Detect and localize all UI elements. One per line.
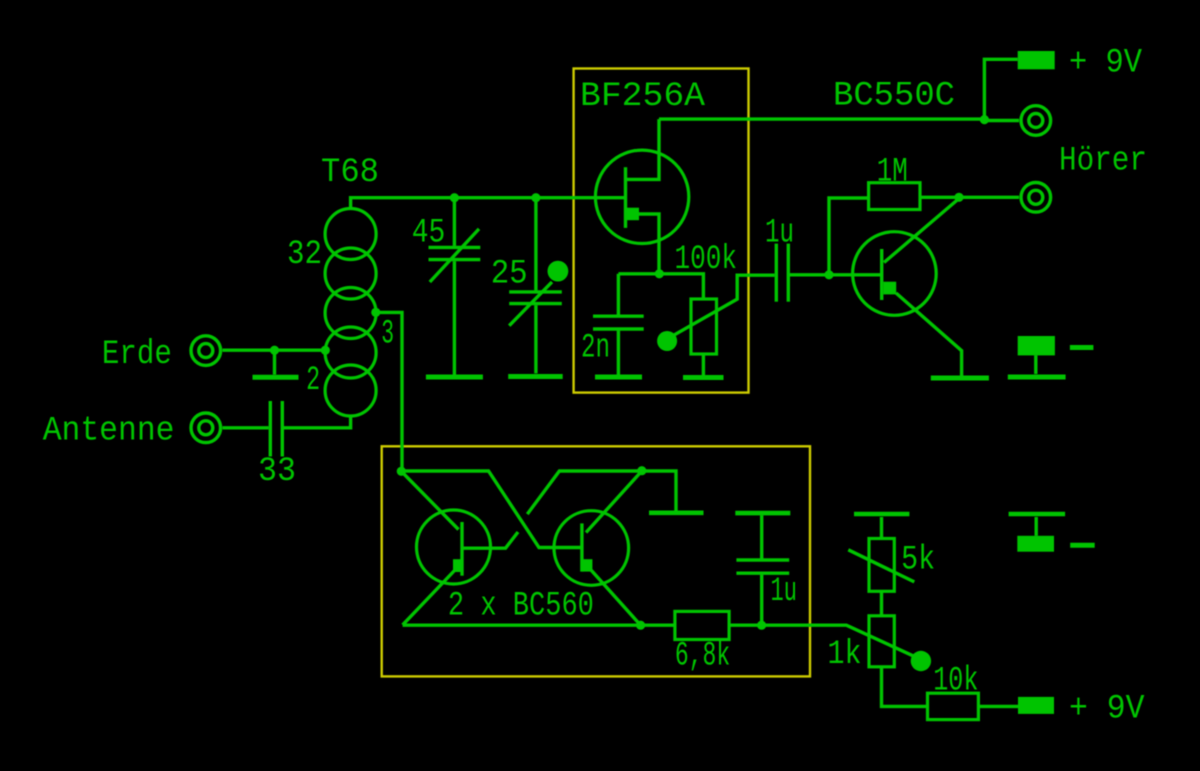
label Erde	[102, 336, 172, 374]
capacitor 1u oscillator	[736, 515, 789, 625]
label 32	[287, 236, 322, 274]
ground 2n	[595, 375, 642, 380]
value label 1M	[877, 154, 908, 192]
node junction 45-top	[450, 193, 459, 202]
svg-text:6,8k: 6,8k	[675, 638, 730, 676]
frame box BF256A stage	[574, 69, 749, 393]
wire to Hoerer connector 1	[984, 119, 1019, 122]
svg-text:Erde: Erde	[102, 336, 172, 374]
value label 6,8k	[675, 638, 730, 676]
ground emitter BC550C	[931, 376, 989, 381]
battery +9V terminal top	[984, 51, 1054, 119]
resistor 5k trimmer	[848, 517, 914, 616]
svg-text:1M: 1M	[877, 154, 908, 192]
connector Erde	[191, 336, 221, 366]
wire node B to ground	[642, 471, 676, 511]
svg-text:+ 9V: + 9V	[1069, 45, 1143, 83]
frame box oscillator stage	[382, 446, 810, 676]
svg-text:+ 9V: + 9V	[1069, 691, 1145, 729]
svg-text:2: 2	[306, 362, 320, 400]
node Erde ground junction	[270, 346, 279, 355]
transistor Q1 BC550C	[829, 199, 962, 377]
ground 5k	[854, 512, 909, 517]
svg-text:Antenne: Antenne	[43, 413, 175, 451]
resistor 6,8k	[675, 611, 762, 639]
resistor 1M	[829, 183, 955, 275]
wire coil tap 3 down to oscillator	[376, 312, 402, 471]
label T68	[321, 154, 379, 192]
svg-text:5k: 5k	[901, 542, 935, 580]
value label 33	[258, 453, 296, 491]
value label 100k	[675, 241, 738, 279]
value label 45	[412, 215, 446, 253]
node emitter junction	[636, 621, 645, 630]
svg-text:32: 32	[287, 236, 322, 274]
capacitor 25 (variable)	[509, 198, 568, 374]
label Hoerer	[1059, 143, 1147, 181]
capacitor 33	[223, 401, 351, 457]
svg-text:33: 33	[258, 453, 296, 491]
svg-text:Hörer: Hörer	[1059, 143, 1147, 181]
svg-text:25: 25	[491, 256, 528, 294]
resistor 10k	[928, 693, 1019, 719]
label 3	[381, 316, 394, 354]
battery +9V terminal bottom	[1018, 697, 1054, 714]
svg-text:10k: 10k	[933, 662, 978, 700]
capacitor 2n	[593, 274, 644, 375]
ground 25	[508, 374, 563, 379]
wire Erde to coil	[223, 349, 326, 352]
wire cross-couple Q2-collector path with node B	[462, 471, 642, 548]
value label 2n	[581, 330, 610, 368]
svg-text:3: 3	[381, 316, 394, 354]
svg-text:2n: 2n	[581, 330, 610, 368]
svg-text:BC550C: BC550C	[833, 78, 955, 116]
ground 45	[426, 375, 483, 380]
value label 25	[491, 256, 528, 294]
wire cross-couple Q1-collector to node A and Q2 base	[401, 471, 582, 548]
value label 1u coupling	[765, 215, 794, 253]
svg-text:1u: 1u	[771, 573, 797, 611]
node collector junction	[954, 193, 963, 202]
node coil tap 2	[321, 346, 330, 355]
transistor Q2 BC560 left	[403, 510, 491, 625]
svg-text:45: 45	[412, 215, 446, 253]
node coil tap 3	[371, 308, 380, 317]
node base junction	[824, 270, 833, 279]
ground Erde	[253, 350, 299, 377]
label +9V top	[1069, 45, 1143, 83]
label +9V bottom	[1069, 691, 1145, 729]
svg-text:BF256A: BF256A	[580, 78, 706, 116]
svg-text:T68: T68	[321, 154, 379, 192]
connector Hoerer 2	[1021, 183, 1051, 213]
value label 1u oscillator	[771, 573, 797, 611]
wire source node row	[618, 274, 703, 299]
value label 5k	[901, 542, 935, 580]
battery minus terminal bottom	[1009, 514, 1095, 552]
capacitor 45 (variable)	[429, 198, 481, 375]
battery minus terminal right	[1008, 336, 1094, 377]
ground oscillator	[649, 510, 704, 515]
label BC550C	[833, 78, 955, 116]
node junction 25-top	[531, 193, 540, 202]
capacitor 1u coupling	[776, 244, 829, 302]
node source junction	[655, 269, 664, 278]
node oscillator junction A	[397, 467, 406, 476]
transistor Q3 BC560 right	[554, 511, 641, 626]
potentiometer 1k	[869, 616, 931, 707]
connector Antenne	[191, 413, 221, 443]
node oscillator junction B	[637, 466, 646, 475]
transistor U1 JFET BF256A	[595, 119, 688, 274]
label 2 x BC560	[448, 587, 594, 625]
wire gate bus from T68 to JFET gate	[351, 198, 626, 210]
wire oscillator bottom rail	[403, 624, 675, 627]
svg-text:100k: 100k	[675, 241, 738, 279]
svg-text:2 x BC560: 2 x BC560	[448, 587, 594, 625]
label 2	[306, 362, 320, 400]
op-amp label BF256A	[580, 78, 706, 116]
label Antenne	[43, 413, 175, 451]
ground 1u oscillator	[735, 511, 790, 516]
inductor T68 coil	[325, 209, 376, 417]
connector Hoerer 1	[1021, 106, 1051, 136]
wire to Hoerer connector 2	[959, 196, 1019, 199]
svg-text:1k: 1k	[828, 636, 862, 674]
value label 10k	[933, 662, 978, 700]
wire output to 1k wiper	[762, 625, 916, 657]
node supply junction	[980, 115, 989, 124]
wire drain to supply rail	[659, 117, 984, 120]
potentiometer 100k	[657, 275, 774, 375]
value label 1k	[828, 636, 862, 674]
node output junction	[757, 621, 766, 630]
ground 100k	[683, 375, 724, 380]
